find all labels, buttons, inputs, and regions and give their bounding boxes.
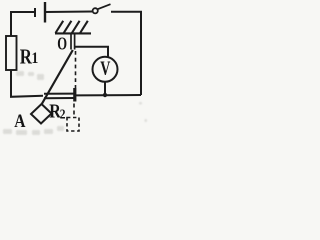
svg-text:2: 2 bbox=[60, 106, 66, 121]
wire R1 to bottom-left corner bbox=[11, 70, 43, 97]
dashed rod below cap bbox=[73, 104, 75, 118]
wire switch to top-right corner bbox=[111, 12, 141, 95]
junction node bbox=[103, 93, 107, 97]
ceiling hatch strokes bbox=[56, 21, 88, 33]
svg-text:O: O bbox=[57, 34, 67, 54]
bob A (diamond) bbox=[31, 104, 52, 124]
resistor strip R2 top edge bbox=[44, 93, 74, 95]
wire battery to switch bbox=[45, 11, 92, 14]
ceiling line bbox=[55, 32, 91, 34]
R2 right terminal cap bbox=[73, 88, 76, 102]
resistor R1 body bbox=[6, 36, 17, 70]
battery cell bbox=[34, 8, 36, 17]
switch S bbox=[93, 8, 98, 13]
wire pivot to voltmeter bbox=[75, 47, 108, 57]
svg-text:1: 1 bbox=[32, 50, 39, 67]
dashed bob at equilibrium bbox=[67, 118, 79, 132]
wire R2 cap to bottom-right corner bbox=[76, 94, 141, 96]
svg-text:A: A bbox=[14, 110, 26, 131]
wire voltmeter to bottom wire bbox=[104, 82, 106, 95]
wire top-left segment bbox=[11, 12, 35, 36]
dashed equilibrium line from O bbox=[75, 51, 77, 88]
pivot support posts bbox=[70, 33, 72, 49]
resistor strip R2 bottom edge bbox=[44, 97, 74, 99]
svg-text:V: V bbox=[100, 57, 111, 79]
voltmeter V body bbox=[93, 57, 118, 82]
rod OA bbox=[42, 50, 73, 105]
svg-text:R: R bbox=[20, 46, 32, 69]
